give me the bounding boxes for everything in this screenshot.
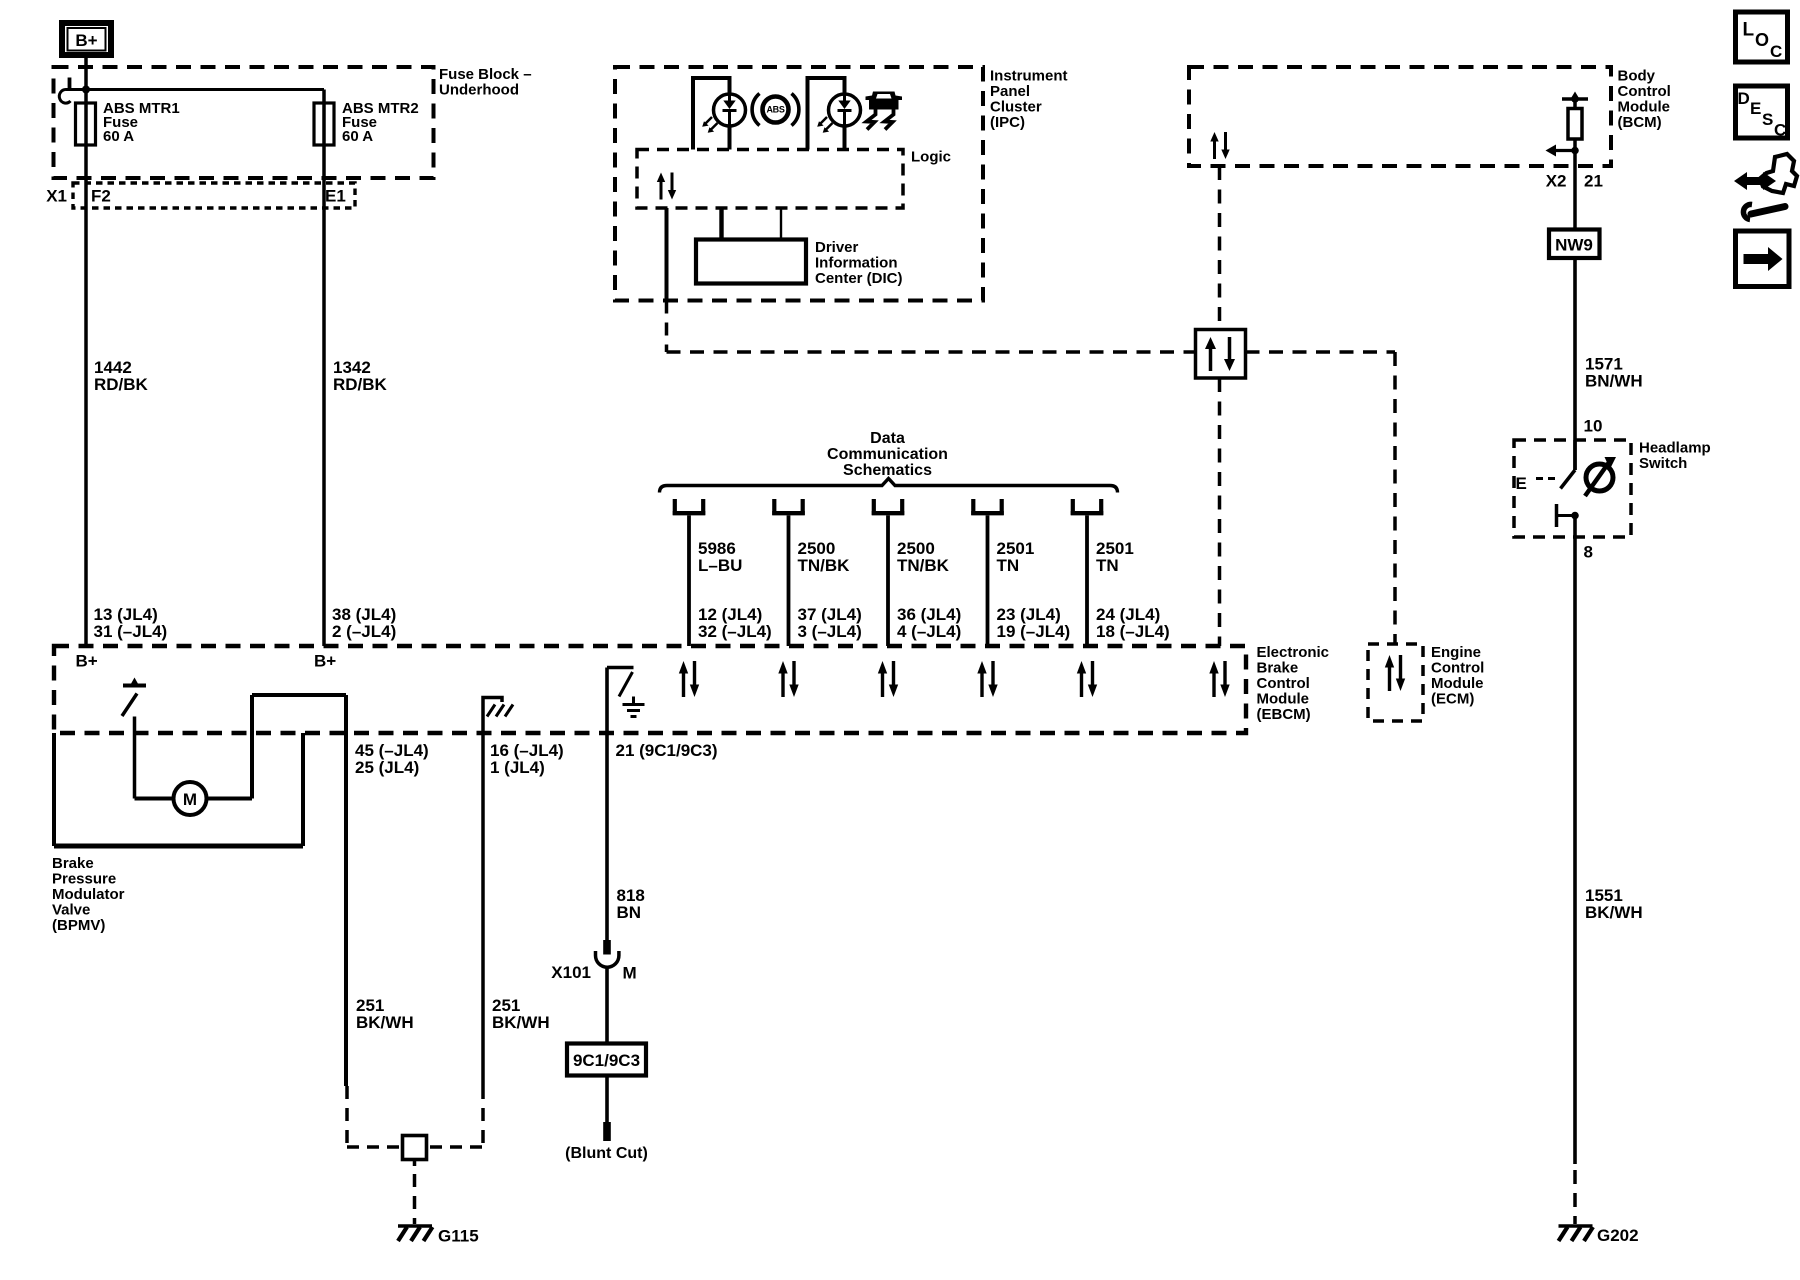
svg-text:Brake: Brake [52,855,94,872]
svg-text:10: 10 [1584,417,1603,436]
svg-text:Valve: Valve [52,902,90,919]
svg-text:25 (JL4): 25 (JL4) [355,758,419,777]
svg-text:(ECM): (ECM) [1431,691,1474,708]
svg-text:Control: Control [1431,660,1484,677]
svg-text:(EBCM): (EBCM) [1257,706,1311,723]
svg-text:TN: TN [997,556,1020,575]
svg-text:Module: Module [1618,99,1671,116]
svg-text:F2: F2 [91,187,111,206]
svg-text:31 (–JL4): 31 (–JL4) [94,622,168,641]
svg-text:X2: X2 [1546,172,1567,191]
svg-text:2 (–JL4): 2 (–JL4) [332,622,396,641]
svg-text:BK/WH: BK/WH [356,1013,414,1032]
svg-text:B+: B+ [76,652,98,671]
svg-text:Electronic: Electronic [1257,644,1330,661]
svg-text:BN: BN [617,903,642,922]
svg-text:Center (DIC): Center (DIC) [815,270,903,287]
svg-text:Engine: Engine [1431,644,1481,661]
svg-text:(IPC): (IPC) [990,114,1025,131]
svg-text:RD/BK: RD/BK [333,375,388,394]
svg-text:Fuse Block –: Fuse Block – [439,66,532,83]
svg-text:C: C [1770,42,1782,61]
svg-text:Pressure: Pressure [52,871,116,888]
svg-text:Module: Module [1431,675,1484,692]
svg-text:X101: X101 [551,963,591,982]
svg-text:BN/WH: BN/WH [1585,372,1643,391]
svg-text:Panel: Panel [990,83,1030,100]
svg-text:9C1/9C3: 9C1/9C3 [573,1051,640,1070]
svg-text:X1: X1 [46,187,67,206]
svg-text:BK/WH: BK/WH [1585,903,1643,922]
svg-text:60 A: 60 A [103,128,134,145]
svg-text:S: S [1762,110,1773,129]
svg-text:L: L [1743,20,1755,41]
svg-text:(BCM): (BCM) [1618,114,1662,131]
svg-text:Brake: Brake [1257,660,1299,677]
svg-text:RD/BK: RD/BK [94,375,149,394]
svg-text:Modulator: Modulator [52,886,125,903]
svg-text:E1: E1 [325,187,346,206]
svg-text:M: M [623,964,637,983]
svg-text:B+: B+ [75,31,97,50]
svg-text:Communication: Communication [827,446,948,463]
svg-text:Information: Information [815,255,898,272]
svg-text:Schematics: Schematics [843,462,932,479]
svg-text:Data: Data [870,430,905,447]
svg-text:Instrument: Instrument [990,68,1068,85]
svg-text:8: 8 [1584,543,1593,562]
svg-text:TN/BK: TN/BK [897,556,950,575]
svg-text:NW9: NW9 [1555,236,1593,255]
svg-text:Control: Control [1257,675,1310,692]
svg-text:ABS: ABS [766,105,784,115]
svg-text:G202: G202 [1597,1226,1639,1245]
svg-text:60 A: 60 A [342,128,373,145]
svg-text:Module: Module [1257,691,1310,708]
svg-text:1 (JL4): 1 (JL4) [490,758,545,777]
svg-text:18 (–JL4): 18 (–JL4) [1096,622,1170,641]
svg-text:TN: TN [1096,556,1119,575]
svg-text:Logic: Logic [911,149,951,166]
svg-text:Driver: Driver [815,239,859,256]
svg-text:Control: Control [1618,83,1671,100]
svg-text:Underhood: Underhood [439,82,519,99]
svg-text:32 (–JL4): 32 (–JL4) [698,622,772,641]
svg-text:(BPMV): (BPMV) [52,917,105,934]
svg-text:Cluster: Cluster [990,99,1042,116]
svg-text:Headlamp: Headlamp [1639,440,1711,457]
svg-text:E: E [1516,474,1527,493]
svg-text:3 (–JL4): 3 (–JL4) [798,622,862,641]
svg-text:M: M [183,790,197,809]
svg-text:L–BU: L–BU [698,556,742,575]
svg-text:TN/BK: TN/BK [798,556,851,575]
svg-text:21 (9C1/9C3): 21 (9C1/9C3) [616,741,718,760]
svg-text:19 (–JL4): 19 (–JL4) [997,622,1071,641]
svg-text:21: 21 [1584,172,1603,191]
svg-text:O: O [1755,30,1769,50]
svg-text:G115: G115 [438,1227,479,1246]
svg-text:Switch: Switch [1639,455,1687,472]
svg-text:E: E [1750,99,1761,118]
svg-text:D: D [1738,89,1750,108]
svg-text:B+: B+ [314,652,336,671]
svg-text:(Blunt Cut): (Blunt Cut) [565,1145,648,1162]
svg-text:Body: Body [1618,68,1656,85]
svg-text:4 (–JL4): 4 (–JL4) [897,622,961,641]
svg-text:BK/WH: BK/WH [492,1013,550,1032]
svg-text:C: C [1774,121,1786,140]
